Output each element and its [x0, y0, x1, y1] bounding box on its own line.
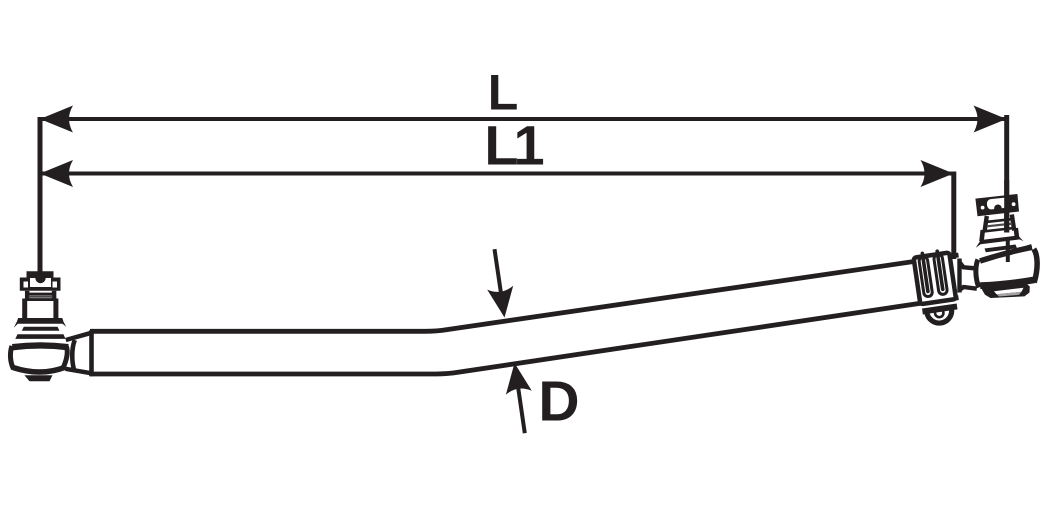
left housing top rim — [12, 345, 68, 347]
right grease tick — [1006, 241, 1010, 263]
left neck bottom edge — [66, 369, 92, 373]
left stud groove bar 2 — [29, 296, 53, 298]
right stud wall wide left — [982, 230, 983, 242]
extension line right for L (over nut) — [1004, 180, 1009, 233]
arrowhead L left — [40, 106, 73, 133]
left neck collar curve — [72, 340, 75, 371]
svg-text:L: L — [488, 65, 519, 121]
clamp bolt hole — [934, 308, 944, 318]
right housing top rim — [980, 247, 1032, 261]
clamp foot band — [922, 303, 957, 314]
right nut cotter tongue — [994, 204, 1002, 209]
left stud wall narrow left — [25, 291, 30, 300]
left castle nut top bar — [27, 271, 54, 278]
right bottom cap gray sliver — [997, 292, 1022, 297]
left nut cotter semicircle — [35, 278, 45, 283]
left nut ear notch right — [53, 282, 58, 288]
right nut dot left — [981, 206, 985, 210]
neck top edge — [959, 262, 977, 269]
left stud wall wide left — [22, 299, 27, 320]
right stud wall narrow left — [985, 216, 987, 232]
right housing bottom band — [980, 280, 1034, 286]
clamp pin right — [937, 251, 943, 289]
rod left butt — [89, 330, 94, 376]
arrowhead L1 right — [921, 160, 954, 187]
clamp slot left — [919, 256, 933, 297]
left housing bottom cap — [24, 375, 52, 381]
rod right butt — [957, 259, 961, 293]
right boot ring 1 — [985, 245, 1018, 253]
clamp bolt ring arc — [927, 309, 954, 325]
right housing left wall — [976, 260, 979, 288]
right housing bottom cap — [982, 284, 1030, 298]
left housing side right — [63, 347, 68, 370]
right boot ring extension tick — [1020, 246, 1032, 250]
clamp pin left — [922, 253, 928, 291]
extension line right for L1 — [951, 172, 956, 260]
right stud wall wide right — [1016, 228, 1017, 240]
right castle nut body — [975, 194, 1019, 216]
right stud bar 2 — [987, 224, 1012, 227]
right bottom cap white sliver — [994, 288, 1024, 295]
right stud bar 1 — [988, 219, 1012, 222]
right nut notch cutout — [986, 197, 1008, 209]
left boot ring 1 — [22, 327, 60, 331]
right stud wall narrow right — [1012, 215, 1014, 231]
RIGHT TIE ROD END — [975, 194, 1037, 298]
left nut ear notch left — [24, 282, 29, 288]
dimension line L — [41, 117, 1006, 121]
rod bottom edge — [90, 298, 959, 374]
svg-text:L1: L1 — [484, 114, 543, 177]
clamp body — [914, 253, 956, 305]
arrowhead L right — [974, 106, 1007, 133]
extension line right for L — [1004, 115, 1009, 233]
extension line left (for L and L1) — [38, 117, 43, 272]
left neck top edge — [66, 333, 90, 340]
CLAMP — [913, 250, 959, 326]
svg-text:D: D — [538, 370, 579, 434]
dimension line L1 — [41, 172, 953, 176]
D arrow lower (points up-left, perpendicular to rod) — [506, 363, 532, 433]
left stud wall wide right — [53, 299, 58, 320]
D arrow upper (points down-right, perpendicular to rod) — [487, 249, 513, 317]
left boot flange — [14, 318, 66, 328]
right stud step bar — [985, 228, 1015, 231]
right boot flange — [976, 236, 1024, 248]
rod top edge — [90, 255, 959, 331]
left housing bottom band — [13, 367, 65, 372]
clamp slot right — [933, 254, 947, 295]
LEFT TIE ROD END — [10, 271, 91, 381]
left stud wall narrow right — [52, 291, 57, 300]
right nut dot right — [1012, 202, 1016, 206]
right housing right wall — [1034, 249, 1037, 283]
left boot ring 2 — [15, 334, 65, 339]
left housing side left — [10, 346, 13, 369]
arrowhead L1 left — [40, 160, 73, 187]
left stud groove bar — [29, 293, 53, 296]
left stud step bar — [25, 298, 57, 301]
neck bottom edge — [959, 287, 977, 290]
left castle nut body — [20, 278, 61, 291]
left nut face cutout — [30, 278, 51, 287]
